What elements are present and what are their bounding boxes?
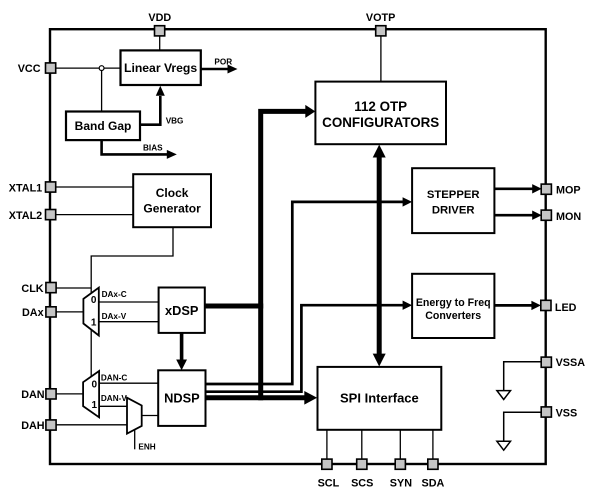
svg-text:MON: MON — [556, 211, 581, 223]
svg-text:112 OTP: 112 OTP — [354, 99, 407, 114]
svg-text:1: 1 — [92, 400, 98, 411]
svg-text:Generator: Generator — [143, 201, 201, 215]
svg-text:DAx-C: DAx-C — [102, 290, 127, 299]
svg-text:SCS: SCS — [351, 478, 373, 490]
svg-text:XTAL2: XTAL2 — [9, 210, 42, 222]
svg-text:xDSP: xDSP — [165, 303, 199, 318]
svg-text:VSSA: VSSA — [556, 357, 586, 369]
svg-text:0: 0 — [92, 379, 98, 390]
svg-text:VBG: VBG — [166, 117, 184, 126]
svg-text:LED: LED — [555, 302, 577, 314]
svg-text:VSS: VSS — [556, 407, 578, 419]
svg-text:DAN-V: DAN-V — [101, 394, 127, 403]
svg-text:XTAL1: XTAL1 — [9, 182, 42, 194]
svg-text:STEPPER: STEPPER — [427, 189, 480, 201]
svg-text:Band Gap: Band Gap — [75, 119, 132, 133]
svg-text:SCL: SCL — [318, 478, 340, 490]
svg-text:VDD: VDD — [148, 12, 171, 24]
svg-text:VOTP: VOTP — [366, 12, 395, 24]
svg-text:Converters: Converters — [425, 310, 481, 322]
svg-text:1: 1 — [91, 318, 97, 329]
svg-text:SDA: SDA — [422, 478, 445, 490]
svg-text:DAx: DAx — [22, 307, 44, 319]
svg-text:MOP: MOP — [556, 184, 581, 196]
svg-text:Clock: Clock — [156, 186, 189, 200]
svg-text:Energy to Freq: Energy to Freq — [416, 297, 491, 309]
svg-text:DAN: DAN — [21, 389, 45, 401]
svg-text:DAH: DAH — [21, 420, 45, 432]
svg-text:CONFIGURATORS: CONFIGURATORS — [322, 115, 439, 130]
svg-text:0: 0 — [91, 295, 97, 306]
svg-text:CLK: CLK — [21, 283, 43, 295]
svg-text:DRIVER: DRIVER — [432, 205, 475, 217]
svg-text:BIAS: BIAS — [143, 144, 163, 153]
svg-text:POR: POR — [214, 58, 232, 67]
svg-text:SYN: SYN — [390, 478, 412, 490]
svg-text:ENH: ENH — [138, 442, 155, 451]
svg-text:NDSP: NDSP — [164, 391, 200, 406]
svg-text:DAx-V: DAx-V — [102, 312, 127, 321]
svg-text:SPI Interface: SPI Interface — [340, 391, 419, 406]
svg-text:VCC: VCC — [18, 63, 41, 75]
svg-text:DAN-C: DAN-C — [101, 374, 127, 383]
svg-text:Linear Vregs: Linear Vregs — [124, 61, 197, 75]
